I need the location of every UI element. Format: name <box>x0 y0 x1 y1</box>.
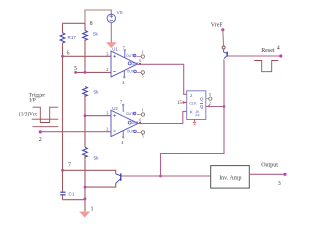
wire Qbar junction up to reset transistor emitter <box>223 60 225 107</box>
ground arrow at VS <box>106 42 117 48</box>
junction emitter ground tie <box>84 186 87 189</box>
svg-text:I/P: I/P <box>29 97 36 103</box>
wire divider mid section <box>84 116 86 148</box>
svg-text:15: 15 <box>177 101 183 106</box>
wire riser from pin8 node up and over to VS source <box>85 10 111 23</box>
svg-text:3: 3 <box>278 181 281 187</box>
U1 output pin 6 pad <box>139 63 141 65</box>
svg-text:8: 8 <box>90 21 93 27</box>
trigger terminal node 2 dot <box>39 130 42 133</box>
svg-text:Q: Q <box>200 96 204 101</box>
U2 output pin 6 pad <box>139 122 141 124</box>
svg-text:5k: 5k <box>94 156 100 161</box>
svg-text:Output: Output <box>261 163 278 169</box>
svg-text:5: 5 <box>142 75 144 79</box>
wire trigger input to U2 minus input <box>41 131 112 133</box>
svg-text:2: 2 <box>106 127 108 132</box>
resistor R1 5k top of divider <box>83 23 88 72</box>
U2 OUT+ pin name <box>126 112 136 116</box>
resistor R3 5k bottom of divider <box>83 147 88 211</box>
svg-text:2: 2 <box>209 101 211 106</box>
FF clear stub below box <box>193 120 196 125</box>
svg-text:C1: C1 <box>69 191 75 196</box>
source VS circle <box>107 14 115 22</box>
wire control 2/3Vcc to U1 minus input <box>76 71 111 73</box>
svg-text:5k: 5k <box>93 32 99 37</box>
wire VreF down to transistor collector pin <box>222 30 225 46</box>
Reset terminal dot <box>279 54 282 57</box>
svg-text:1: 1 <box>142 108 144 112</box>
svg-text:7: 7 <box>68 163 71 169</box>
op-amp U2 trigger comparator <box>111 110 138 136</box>
svg-text:2: 2 <box>39 137 42 143</box>
svg-text:5: 5 <box>142 135 144 139</box>
transistor Q2 reset transistor <box>224 49 228 59</box>
op-amp U1 threshold comparator <box>111 51 137 77</box>
U2 OUT+ terminal circle <box>137 113 145 116</box>
wire Vcc top rail from R17 to divider <box>63 22 86 24</box>
junction C1 return <box>84 197 87 200</box>
transistor Q2 collector pin circle <box>222 46 225 49</box>
svg-text:5: 5 <box>74 66 77 72</box>
svg-text:OUT: OUT <box>132 121 139 125</box>
FF CLK input stub with pad <box>182 101 186 103</box>
svg-text:7: 7 <box>120 100 122 105</box>
svg-text:5: 5 <box>209 92 211 97</box>
U2 OUT pin name <box>128 121 139 125</box>
wire threshold node6 to U1 plus input <box>63 55 112 57</box>
node 7 junction dot <box>61 169 64 172</box>
svg-text:FF: FF <box>196 114 200 118</box>
U1 OUT+ terminal circle <box>137 55 145 58</box>
U2 OUT- terminal circle <box>137 131 145 134</box>
U2 OUT- pin name <box>127 130 137 134</box>
trigger waveform annotation <box>32 107 59 127</box>
resistor R2 5k middle of divider <box>83 87 88 116</box>
svg-text:7: 7 <box>123 45 125 50</box>
U2 V- power stub pin 4 <box>122 130 124 138</box>
reset waveform annotation <box>254 61 278 72</box>
svg-text:Q: Q <box>200 104 204 109</box>
wire emitter to ground rail <box>85 183 116 187</box>
svg-text:U1: U1 <box>112 47 118 52</box>
wire reset transistor base to Reset terminal <box>228 55 281 57</box>
svg-text:R17: R17 <box>68 35 77 40</box>
U1 OUT- pin name <box>127 70 137 74</box>
U1 V- power stub pin 4 <box>123 71 125 79</box>
U1 OUT+ pin name <box>126 54 136 58</box>
svg-text:VS: VS <box>117 10 123 15</box>
svg-text:1: 1 <box>142 50 144 54</box>
svg-text:K: K <box>190 110 193 115</box>
svg-text:Reset: Reset <box>261 48 275 54</box>
wire U2 output to FF K input <box>138 111 187 123</box>
svg-text:4: 4 <box>277 45 280 51</box>
wire 1/3Vcc to U2 plus input <box>85 115 111 117</box>
svg-text:CLK: CLK <box>189 101 197 105</box>
capacitor C1 <box>60 170 65 199</box>
wire discharge node7 to transistor Q1 collector <box>63 170 116 174</box>
node 6 junction <box>61 55 64 58</box>
FF Q output stub with open circle <box>206 97 212 100</box>
wire Q1 base to inverter amp input <box>121 175 210 177</box>
svg-text:6: 6 <box>67 51 70 57</box>
junction divider 1/3 node <box>84 114 87 117</box>
svg-text:2: 2 <box>106 67 108 72</box>
Output terminal dot <box>283 173 286 176</box>
wire Qbar junction down and left to inverter input <box>161 107 225 177</box>
wire VS negative lead down <box>110 23 112 43</box>
svg-text:VreF: VreF <box>211 22 224 28</box>
node 5 terminal dot <box>74 71 77 74</box>
wire C1 bottom to ground node <box>63 199 86 201</box>
svg-text:6: 6 <box>139 118 141 122</box>
transistor Q1 discharge transistor <box>116 173 121 183</box>
svg-text:1: 1 <box>91 207 94 213</box>
FF Qbar pin pad <box>208 105 210 107</box>
FF Qbar pin name <box>200 104 204 110</box>
wire timing node down from node6 to node7 <box>62 56 64 170</box>
flip-flop FF1 box <box>187 91 206 120</box>
wire U1 output to FF J input <box>137 64 186 94</box>
junction inverter input <box>159 175 162 178</box>
svg-text:6: 6 <box>139 59 141 63</box>
U2 V+ power stub pin 7 <box>122 104 124 112</box>
VreF terminal dot <box>221 28 224 31</box>
wire FF Qbar to junction <box>206 106 224 108</box>
svg-text:5k: 5k <box>94 90 100 95</box>
wire inverter output to Output terminal <box>249 173 285 175</box>
U1 OUT- terminal circle <box>137 71 145 74</box>
svg-text:(1/3)Vcc: (1/3)Vcc <box>19 111 38 118</box>
junction Qbar net <box>223 105 226 108</box>
junction divider 2/3 node <box>84 71 87 74</box>
svg-text:Inv. Amp: Inv. Amp <box>219 175 241 181</box>
U1 OUT pin name <box>128 62 139 66</box>
inverter amplifier box <box>211 166 250 189</box>
U1 V+ power stub pin 7 <box>124 49 126 58</box>
ground symbol bottom <box>79 212 90 218</box>
resistor R17 <box>60 23 65 56</box>
svg-text:J: J <box>190 93 192 98</box>
svg-text:U2: U2 <box>112 106 118 111</box>
